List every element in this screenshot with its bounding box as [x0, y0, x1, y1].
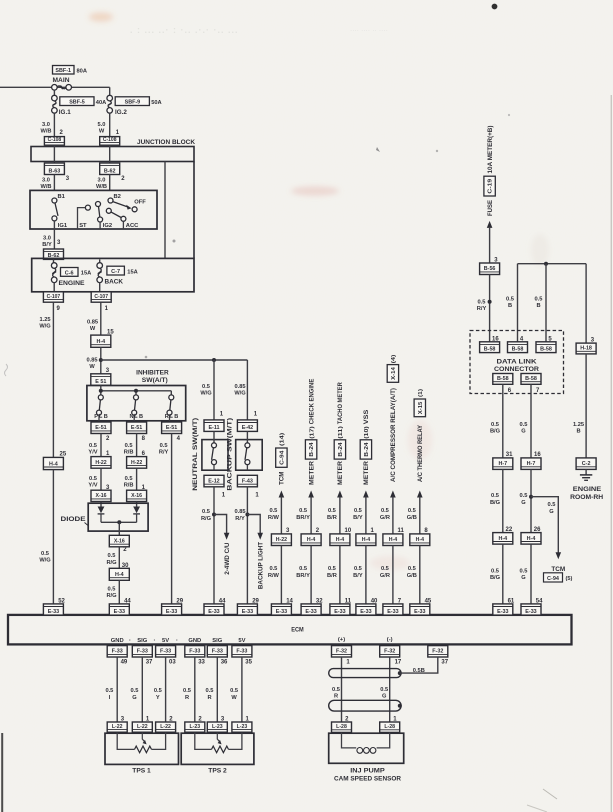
connector L-22 pin1 — [132, 722, 152, 732]
wire E-51 to H-22 — [136, 434, 138, 457]
wire F-33 to TPS — [165, 657, 167, 722]
wire X-16 to diode — [136, 502, 138, 507]
contact IG1 — [52, 216, 57, 221]
node neutral branch — [212, 358, 216, 362]
connector E-11 — [204, 420, 224, 432]
junction block top strip — [31, 147, 194, 162]
fuse SBF-9 IG.2 50A — [107, 95, 162, 116]
connector B-58 pin6 — [493, 374, 513, 385]
connector E-33 pin61 — [493, 604, 513, 615]
connector L-23 pin3 — [207, 722, 227, 732]
connector L-28 pin1 — [380, 722, 400, 732]
connector E-33 pin11 — [330, 604, 350, 615]
fuse C-6 ENGINE 15A — [51, 259, 91, 291]
fuse SBF-5 IG.1 40A — [52, 95, 107, 116]
connector H-22 pin3 — [271, 534, 291, 546]
wire IG.1 branch — [53, 90, 55, 95]
inhibiter contact R-B — [165, 395, 179, 421]
wire through strip right — [109, 145, 111, 163]
switch blade B1-IG1 — [55, 203, 58, 216]
junction block fuse box — [32, 258, 194, 291]
connector X-16 pin2 — [109, 535, 129, 547]
wire H-4 to E-33 — [365, 546, 367, 604]
connector F-33 pin37 — [132, 646, 152, 657]
connector F-33 pin36 — [207, 646, 227, 657]
inhibiter contact P-B — [94, 395, 108, 421]
connector H-7 pin31 — [493, 458, 513, 470]
connector E 51 feed — [91, 374, 111, 386]
connector C-107 left — [43, 292, 63, 302]
wire to X-16 pin2 — [118, 522, 120, 535]
connector E-33 pin32 — [301, 604, 321, 615]
METER VSS label stack — [360, 410, 371, 485]
diode D1 — [98, 507, 105, 514]
wire (+) F-32 to L-28 — [341, 657, 343, 722]
contact IG2 — [96, 202, 101, 207]
connector C-108 right — [100, 137, 120, 146]
connector F-33 pin49 — [107, 646, 127, 657]
wire B-63 to switch — [53, 175, 55, 191]
connector B-62 upper — [100, 163, 120, 175]
wire E-51 to H-22 — [100, 434, 102, 457]
connector H-4 pin15 — [91, 335, 111, 347]
wire E-51 pin4 to E-33 pin29 — [171, 434, 173, 604]
diode box — [88, 503, 148, 531]
wire branch to TCM — [531, 497, 558, 553]
wire branch to backup light — [247, 515, 260, 534]
wire bus to B-58 pin5 — [545, 264, 547, 342]
shield oval lower — [329, 700, 401, 711]
connector E-33 pin44 — [109, 604, 129, 615]
node — [488, 300, 492, 304]
wire/arrow output column B/R — [337, 491, 343, 534]
connector X-16 pin1 — [127, 490, 147, 501]
wire E-12 to E-33 pin44 — [213, 487, 215, 604]
wire/arrow output column BR/Y — [308, 491, 314, 534]
ignition switch box — [30, 190, 157, 229]
wire F-33 to TPS — [194, 657, 196, 722]
wire bus to B-58 pin4 — [517, 264, 519, 342]
wire H-18 to C-2 — [585, 354, 587, 458]
connector E-33 pin52 — [43, 604, 63, 615]
connector H-4 pin8 — [410, 534, 430, 546]
inhibiter internal bus — [101, 390, 172, 392]
wire IG.2 branch — [109, 87, 111, 95]
connector E-33 pin45 — [410, 604, 430, 615]
wire F-33 to TPS — [216, 657, 218, 722]
wire H-4 down to E 51 — [100, 347, 102, 374]
connector H-4 pin11 — [383, 534, 403, 546]
wire H-4 to E-33 — [419, 546, 421, 604]
wire H-4 to E-33 pin61 — [502, 544, 504, 604]
backup switch box — [236, 440, 263, 471]
connector B-58 pin4 — [508, 342, 528, 353]
connector E-51 pin4 — [162, 422, 182, 434]
connector F-32 pin17 — [380, 646, 400, 657]
TCM C-94 (5) label — [544, 566, 573, 582]
neutral switch contacts — [213, 431, 215, 442]
connector C-2 — [576, 458, 596, 470]
connector F-43 — [237, 475, 257, 487]
node TCM branch — [529, 495, 533, 499]
ground ENGINE ROOM-RH — [570, 475, 603, 501]
wire to C-108 left — [53, 113, 55, 137]
connector H-4 pin30 — [109, 568, 129, 580]
wire B-58 pin6 to H-7 — [502, 384, 504, 458]
connector F-32 pin37 — [428, 646, 448, 657]
arrow to fuse — [487, 221, 493, 228]
wire neutral branch down — [213, 360, 215, 420]
connector E-33 pin29 — [237, 604, 257, 615]
wire H-22 to X-16 — [136, 468, 138, 490]
connector E-12 — [204, 475, 224, 487]
node shield — [398, 671, 402, 675]
connector H-4 pin10 — [330, 534, 350, 546]
connector H-22 pin1 — [91, 457, 111, 469]
wire F-33 to TPS — [241, 657, 243, 722]
wire C-107 to H-4 pin15 — [100, 302, 102, 335]
wire C-107 to H-4 — [52, 302, 54, 457]
wire H-7 to H-4 left — [502, 469, 504, 532]
METER CHECK ENGINE label stack — [305, 379, 316, 485]
wire to E-33 pin44 — [118, 580, 120, 604]
wire/arrow output column G/B — [417, 491, 423, 534]
connector L-22 pin2 — [156, 722, 176, 732]
fuse C-7 BACK 15A — [97, 259, 138, 291]
connector E-33 pin40 — [356, 604, 376, 615]
connector H-22 pin6 — [127, 457, 147, 469]
TCM label stack — [276, 433, 287, 485]
fuse SBF-1 MAIN 80A — [52, 66, 87, 91]
connector B-56 — [480, 263, 500, 275]
node shield lower — [398, 704, 402, 708]
wire H-4 to E-33 pin54 — [530, 544, 532, 604]
connector F-33 pin33 — [185, 646, 205, 657]
A/C thermo relay label stack — [414, 389, 425, 482]
wire to C-108 right — [109, 113, 111, 137]
connector E-51 pin2 — [91, 422, 111, 434]
wire H-4 to E-33 — [392, 546, 394, 604]
wire C-2 to ground — [585, 469, 587, 474]
shield oval upper — [329, 669, 401, 678]
connector C-108 left — [44, 137, 64, 146]
wire B-58 pin7 to H-7 — [530, 384, 532, 458]
contact B1 — [52, 198, 57, 203]
wire F-33 to TPS — [116, 657, 118, 722]
wire H-7 to H-4 right — [530, 469, 532, 532]
connector L-28 pin2 — [332, 722, 352, 732]
node backup light branch — [245, 513, 249, 517]
contact ACC chain — [106, 208, 111, 213]
connector H-7 pin16 — [521, 458, 541, 470]
connector F-33 pin03 — [156, 646, 176, 657]
wire diode output bus — [101, 521, 137, 523]
wire H-22 to X-16 — [100, 468, 102, 490]
connector L-22 pin3 — [107, 722, 127, 732]
connector B-63 — [44, 163, 64, 175]
node bus P — [99, 389, 103, 393]
wire F-43 to E-33 pin29 — [246, 487, 248, 604]
wire H-4 to E-33 — [339, 546, 341, 604]
A/C compressor relay label stack — [387, 354, 398, 482]
inhibiter switch box — [87, 386, 186, 421]
wire IG1 stub — [53, 221, 55, 229]
wire H-4 to E-33 — [52, 470, 54, 604]
connector E-33 pin54 — [521, 604, 541, 615]
wire X-16 to diode — [100, 502, 102, 507]
contact ST — [85, 205, 90, 210]
connector E-33 pin44 — [204, 604, 224, 615]
data link connector dashed box — [470, 331, 564, 394]
connector B-58 pin16 — [480, 342, 500, 353]
wire H-22 to E-33 — [280, 546, 282, 604]
wire/arrow output column B/Y — [363, 491, 369, 534]
wire IG1 to B-62 — [53, 229, 55, 249]
inhibiter contact N-B — [130, 395, 144, 421]
neutral switch box — [202, 440, 228, 471]
wire to H-4 — [118, 547, 120, 569]
wire ground bus — [518, 263, 587, 265]
connector H-4 pin26 — [521, 533, 541, 545]
connector E-33 pin14 — [271, 604, 291, 615]
connector H-4 pin1 — [356, 534, 376, 546]
node bus — [544, 262, 548, 266]
connector B-58 pin5 — [536, 342, 556, 353]
diode D2 — [133, 507, 140, 514]
wire B-62 to switch — [109, 175, 111, 191]
connector H-4 pin2 — [301, 534, 321, 546]
connector L-23 pin2 — [185, 722, 205, 732]
wire through strip left — [53, 145, 55, 163]
backup switch contacts — [246, 431, 248, 442]
junction block right edge — [193, 162, 195, 259]
connector H-18 — [576, 343, 596, 354]
contact OFF with blade arrow — [132, 207, 137, 212]
connector E-33 pin29 — [162, 604, 182, 615]
wire branch to 2-4WD C/U — [214, 515, 227, 534]
wire shield drain 0.5B — [400, 657, 438, 673]
connector H-4 pin25 — [43, 457, 63, 469]
connector E-33 pin7 — [383, 604, 403, 615]
connector L-23 pin1 — [232, 722, 252, 732]
connector F-32 pin1 — [332, 646, 352, 657]
TPS 2 box — [181, 733, 254, 764]
ECM terminal labels — [111, 637, 393, 644]
FUSE C-19 label stack — [484, 126, 495, 217]
node bus N — [134, 389, 138, 393]
cam speed sensor box — [329, 733, 404, 763]
TPS 1 potentiometer — [117, 733, 165, 753]
connector F-33 pin35 — [232, 646, 252, 657]
wire F-33 to TPS — [141, 657, 143, 722]
connector B-62 lower — [44, 249, 64, 259]
ECM box — [8, 615, 572, 645]
wire (-) F-32 to L-28 — [389, 657, 391, 722]
wire arrow to B-56 — [489, 227, 491, 263]
connector X-16 pin3 — [91, 490, 111, 501]
TPS 2 potentiometer — [195, 733, 242, 753]
connector H-4 pin22 — [493, 533, 513, 545]
wire H-4 to E-33 — [310, 546, 312, 604]
wire/arrow output column G/R — [390, 491, 396, 534]
wire feed to neutral/backup switches — [101, 359, 248, 361]
wire bus to H-18 — [585, 264, 587, 343]
connector E-51 pin8 — [127, 422, 147, 434]
connector B-58 pin7 — [521, 374, 541, 385]
node diode junction — [117, 520, 121, 524]
sensor coil — [342, 733, 390, 754]
TPS 1 box — [105, 733, 179, 764]
METER TACHO METER label stack — [334, 382, 345, 485]
wire B-56 to B-58 pin16 — [489, 275, 491, 342]
node 2-4WD branch — [212, 513, 216, 517]
node feed junction — [99, 358, 103, 362]
connector C-107 right — [91, 292, 111, 302]
contact B2 — [108, 198, 113, 203]
wire/arrow output column R/W — [279, 491, 285, 534]
wire battery feed (top horizontal) — [0, 86, 110, 88]
connector E-42 — [237, 420, 257, 432]
wire into box — [100, 385, 102, 395]
junction block internal bus x=165 — [164, 162, 166, 259]
